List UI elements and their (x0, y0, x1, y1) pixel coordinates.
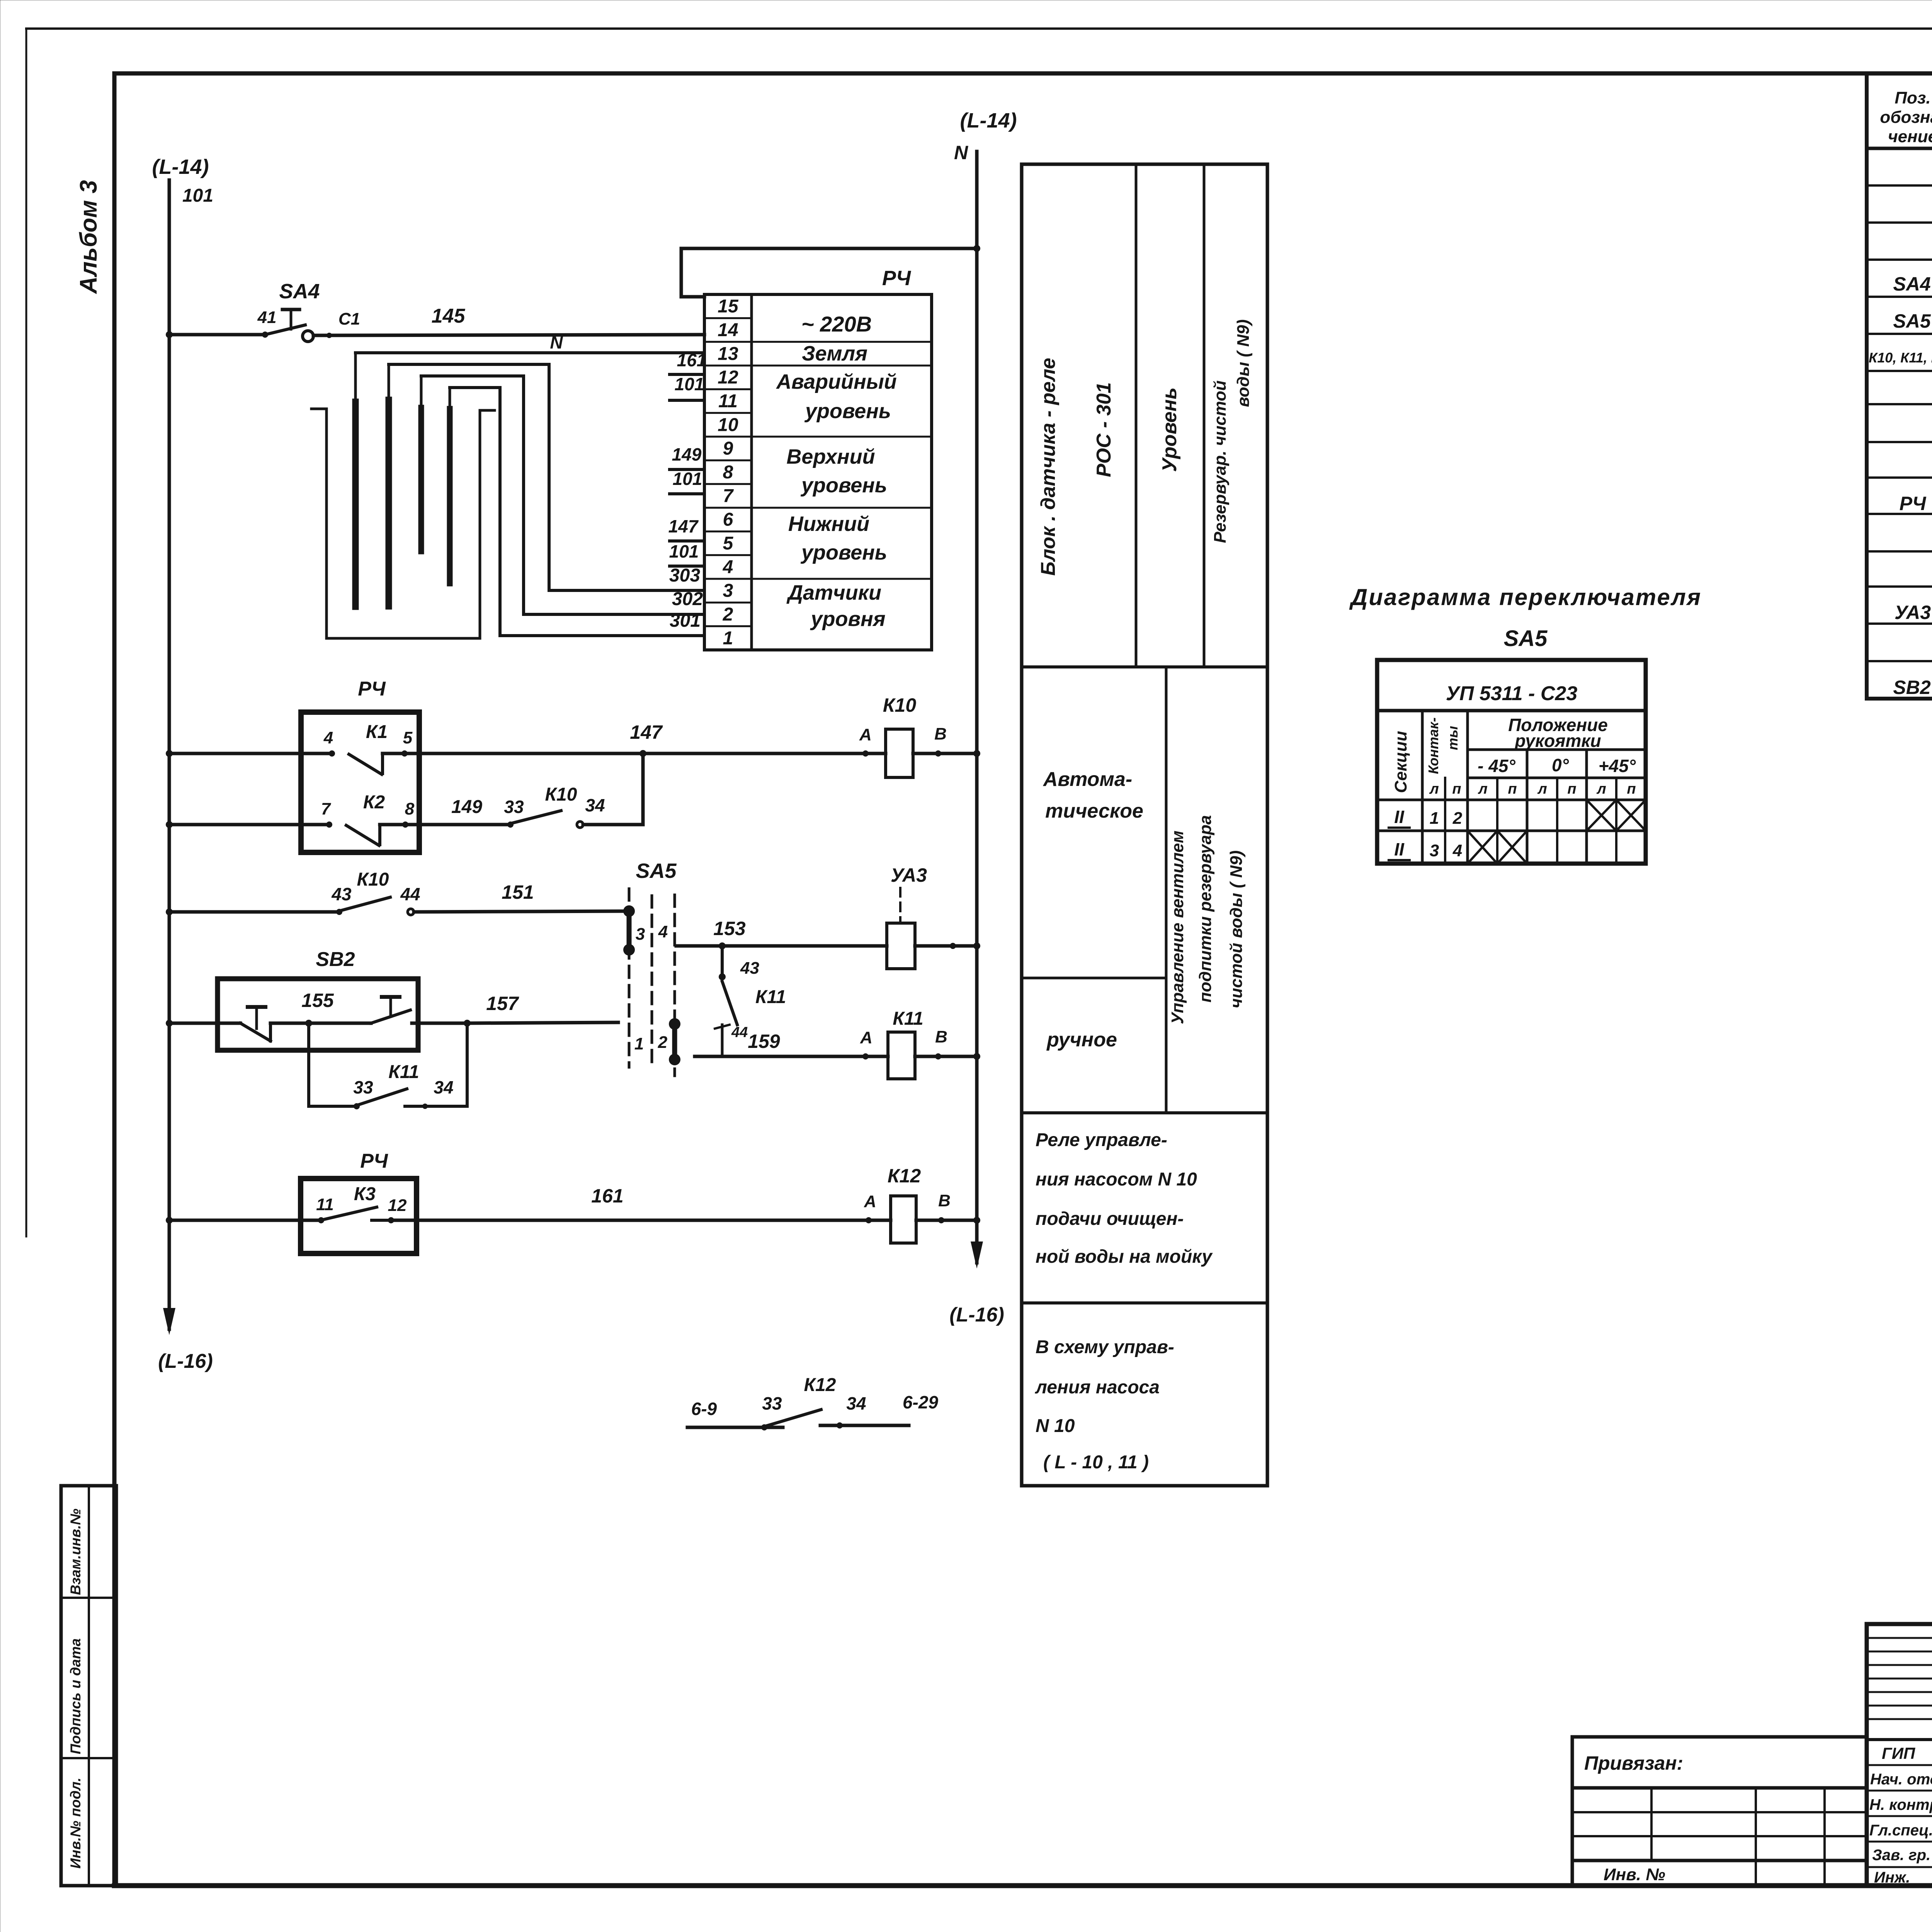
svg-text:Секции: Секции (1391, 731, 1410, 793)
svg-text:Нач. отд.: Нач. отд. (1870, 1771, 1932, 1788)
svg-text:34: 34 (846, 1393, 866, 1413)
svg-text:Контак-: Контак- (1425, 718, 1441, 774)
svg-text:101: 101 (182, 185, 213, 206)
svg-text:К10: К10 (545, 784, 577, 805)
svg-text:N 10: N 10 (1036, 1416, 1075, 1436)
svg-text:12: 12 (388, 1196, 407, 1215)
svg-text:РОС - 301: РОС - 301 (1093, 382, 1115, 477)
aux contact K11 33-34 self hold (307, 1023, 310, 1106)
svg-text:(L-16): (L-16) (158, 1350, 213, 1372)
svg-text:К2: К2 (363, 792, 385, 813)
relay coil K10 (862, 750, 869, 757)
svg-text:РЧ: РЧ (358, 678, 386, 700)
svg-text:Реле управле-: Реле управле- (1036, 1130, 1167, 1150)
svg-text:13: 13 (718, 344, 738, 364)
svg-text:Аварийный: Аварийный (776, 370, 897, 393)
svg-text:~ 220В: ~ 220В (801, 312, 872, 336)
svg-text:155: 155 (301, 990, 334, 1011)
svg-text:4: 4 (323, 728, 333, 747)
svg-text:л: л (1537, 781, 1547, 797)
svg-text:43: 43 (740, 959, 759, 978)
svg-text:К12: К12 (804, 1375, 836, 1395)
svg-text:тическое: тическое (1045, 800, 1143, 822)
svg-text:обозна-: обозна- (1880, 108, 1932, 127)
contact K2 row 149 (169, 823, 329, 827)
svg-text:В: В (938, 1191, 951, 1210)
svg-text:Инв. №: Инв. № (1604, 1865, 1665, 1884)
svg-text:подачи очищен-: подачи очищен- (1036, 1209, 1184, 1229)
aux contact K10 33-34 (507, 821, 514, 828)
svg-text:п: п (1567, 781, 1576, 797)
wire to terminal 15 (681, 248, 977, 297)
title block left mini rows (1867, 1637, 1932, 1639)
svg-text:147: 147 (668, 516, 699, 536)
wire stubs 161 101 149 101 147 101 (670, 373, 704, 376)
svg-text:п: п (1627, 781, 1636, 797)
svg-text:6-29: 6-29 (903, 1392, 938, 1412)
svg-text:уровень: уровень (800, 474, 887, 497)
svg-text:УП 5311 - С23: УП 5311 - С23 (1446, 682, 1578, 705)
svg-text:В схему управ-: В схему управ- (1036, 1337, 1174, 1357)
svg-text:0°: 0° (1552, 755, 1569, 775)
svg-text:(L-16): (L-16) (949, 1304, 1004, 1326)
wire 153 (676, 944, 887, 948)
svg-text:Поз.: Поз. (1895, 88, 1930, 107)
svg-text:+45°: +45° (1599, 756, 1636, 776)
svg-text:4: 4 (1452, 841, 1462, 860)
relay coil K12 (866, 1217, 872, 1223)
svg-text:8: 8 (405, 799, 415, 818)
SA5 section contacts 1-2 (672, 1024, 677, 1060)
svg-text:уровень: уровень (804, 400, 891, 423)
sheet outer border (26, 27, 1932, 30)
svg-text:А: А (864, 1192, 876, 1211)
privyazan stamp (1572, 1735, 1867, 1739)
svg-text:101: 101 (675, 374, 704, 394)
svg-text:157: 157 (486, 993, 519, 1014)
svg-text:л: л (1596, 781, 1606, 797)
svg-text:SA5: SA5 (636, 859, 677, 883)
svg-text:Альбом 3: Альбом 3 (75, 180, 102, 294)
wire 145 (327, 333, 332, 338)
svg-text:SB2: SB2 (1893, 677, 1930, 698)
svg-text:1: 1 (634, 1034, 644, 1053)
svg-text:1: 1 (1430, 809, 1439, 828)
electrode E3 wire 302 (418, 408, 424, 551)
svg-text:2: 2 (1452, 809, 1463, 828)
svg-text:4: 4 (658, 922, 668, 941)
svg-text:149: 149 (451, 797, 482, 817)
svg-text:РЧ: РЧ (1900, 493, 1927, 514)
svg-text:303: 303 (669, 565, 700, 586)
svg-text:- 45°: - 45° (1478, 756, 1515, 776)
svg-text:44: 44 (400, 884, 420, 904)
svg-text:3: 3 (636, 925, 645, 944)
svg-text:33: 33 (504, 797, 524, 817)
svg-text:N: N (550, 332, 563, 352)
electrode E2 wire 303 (386, 400, 392, 606)
svg-text:101: 101 (669, 541, 699, 561)
button SB2.2 (NO) (309, 1022, 371, 1025)
svg-text:Блок . датчика - реле: Блок . датчика - реле (1037, 358, 1060, 576)
svg-text:7: 7 (723, 486, 734, 506)
svg-text:15: 15 (718, 296, 739, 317)
svg-text:34: 34 (585, 795, 605, 815)
svg-text:161: 161 (591, 1185, 623, 1207)
svg-text:3: 3 (723, 581, 733, 601)
svg-text:3: 3 (1430, 841, 1439, 860)
svg-text:6-9: 6-9 (691, 1399, 717, 1419)
svg-text:9: 9 (723, 439, 733, 459)
svg-text:41: 41 (257, 308, 277, 327)
svg-text:ты: ты (1445, 726, 1461, 750)
svg-text:SA4: SA4 (279, 280, 320, 303)
electrode E4 wire 301 (447, 409, 453, 583)
svg-text:К10: К10 (357, 869, 389, 890)
svg-text:К10: К10 (883, 694, 917, 716)
svg-text:л: л (1429, 781, 1439, 797)
svg-text:Н. контр.: Н. контр. (1869, 1796, 1932, 1813)
svg-text:34: 34 (434, 1077, 453, 1097)
svg-text:Взам.инв.№: Взам.инв.№ (68, 1509, 83, 1595)
svg-text:2: 2 (658, 1033, 668, 1052)
svg-text:2: 2 (723, 604, 733, 625)
svg-text:Резервуар. чистой: Резервуар. чистой (1211, 380, 1230, 543)
svg-text:101: 101 (673, 469, 702, 489)
level sensor tank (311, 409, 495, 638)
selector contact K11 43-44 (721, 946, 724, 977)
signature rows (1867, 1738, 1932, 1741)
svg-text:43: 43 (331, 884, 352, 904)
drawing frame (114, 71, 1932, 76)
svg-text:чение: чение (1888, 127, 1932, 146)
svg-text:1: 1 (723, 628, 733, 648)
svg-text:л: л (1478, 781, 1488, 797)
svg-text:Гл.спец.: Гл.спец. (1869, 1822, 1932, 1839)
svg-text:п: п (1452, 781, 1461, 797)
electrode E1 (common N) (352, 402, 359, 607)
title block frame (1867, 1624, 1932, 1886)
svg-text:В: В (935, 1027, 947, 1046)
svg-text:К11: К11 (388, 1062, 419, 1082)
svg-text:УА3: УА3 (891, 864, 927, 886)
svg-text:II: II (1394, 807, 1405, 827)
svg-text:Привязан:: Привязан: (1584, 1752, 1683, 1774)
svg-text:33: 33 (762, 1393, 782, 1413)
aux contact K10 43-44 wire 151 (169, 910, 339, 914)
svg-text:SA5: SA5 (1893, 310, 1931, 332)
function description table (1022, 164, 1267, 1486)
contact K1 row 147 (169, 752, 332, 755)
svg-text:Верхний: Верхний (786, 445, 875, 468)
svg-text:Автома-: Автома- (1043, 768, 1132, 791)
svg-text:К11: К11 (755, 987, 786, 1007)
svg-text:Управление вентилем: Управление вентилем (1168, 830, 1187, 1024)
svg-text:ления насоса: ления насоса (1035, 1377, 1160, 1398)
svg-text:К11: К11 (893, 1009, 923, 1029)
svg-text:Уровень: Уровень (1158, 388, 1181, 472)
svg-text:8: 8 (723, 462, 733, 483)
svg-text:Инж.: Инж. (1874, 1869, 1910, 1886)
svg-text:12: 12 (718, 367, 738, 388)
svg-text:14: 14 (718, 320, 738, 340)
svg-text:N: N (954, 142, 968, 163)
svg-text:Земля: Земля (802, 342, 867, 365)
side stamp (inventory strip) (61, 1486, 116, 1886)
svg-text:К1: К1 (366, 722, 388, 742)
svg-text:C1: C1 (338, 310, 360, 328)
svg-text:10: 10 (718, 415, 738, 435)
svg-text:6: 6 (723, 510, 733, 530)
svg-text:153: 153 (713, 918, 746, 939)
svg-text:( L - 10 , 11 ): ( L - 10 , 11 ) (1043, 1452, 1149, 1473)
РЧ contact box K1 K2 (301, 712, 419, 852)
svg-text:РЧ: РЧ (360, 1150, 388, 1172)
svg-text:II: II (1394, 839, 1405, 859)
svg-text:ручное: ручное (1046, 1029, 1117, 1051)
svg-text:уровня: уровня (810, 607, 885, 631)
svg-text:К10, К11, К12: К10, К11, К12 (1869, 350, 1932, 366)
svg-text:4: 4 (723, 557, 733, 577)
button SB2.1 (NC) (240, 1023, 270, 1041)
svg-text:воды ( N9): воды ( N9) (1234, 319, 1253, 407)
svg-text:А: А (860, 1028, 872, 1047)
svg-text:5: 5 (403, 728, 413, 747)
svg-text:33: 33 (353, 1077, 373, 1097)
svg-text:Датчики: Датчики (786, 581, 881, 604)
svg-text:подпитки резервуара: подпитки резервуара (1196, 815, 1215, 1003)
svg-text:SA5: SA5 (1504, 626, 1548, 651)
svg-text:Нижний: Нижний (788, 512, 869, 536)
svg-text:чистой воды ( N9): чистой воды ( N9) (1227, 850, 1246, 1009)
svg-text:SA4: SA4 (1893, 273, 1930, 295)
svg-text:44: 44 (731, 1024, 748, 1041)
svg-text:К12: К12 (888, 1165, 921, 1187)
parts list table (1867, 73, 1932, 699)
wire 157 (467, 1022, 618, 1023)
svg-text:11: 11 (718, 391, 738, 412)
SA5 section contacts 3-4 (627, 911, 632, 950)
svg-text:Зав. гр.: Зав. гр. (1872, 1847, 1930, 1864)
svg-text:ГИП: ГИП (1882, 1744, 1915, 1762)
SA5 diagram table (1377, 660, 1646, 864)
svg-text:(L-14): (L-14) (152, 155, 209, 179)
svg-text:ной воды на мойку: ной воды на мойку (1036, 1247, 1213, 1267)
aux contact K12 6-9 33 34 6-29 (687, 1426, 783, 1429)
svg-text:рукоятки: рукоятки (1514, 731, 1601, 751)
svg-text:ния насосом N 10: ния насосом N 10 (1036, 1169, 1197, 1190)
svg-text:РЧ: РЧ (882, 267, 912, 290)
svg-text:7: 7 (321, 799, 332, 818)
svg-text:уровень: уровень (800, 541, 887, 564)
svg-text:11: 11 (316, 1195, 334, 1214)
svg-text:145: 145 (432, 305, 466, 327)
svg-text:Инв.№ подл.: Инв.№ подл. (68, 1777, 83, 1869)
svg-text:159: 159 (748, 1031, 780, 1052)
svg-text:УА3: УА3 (1895, 602, 1931, 623)
svg-text:5: 5 (723, 533, 734, 554)
svg-text:Подпись и дата: Подпись и дата (68, 1638, 83, 1754)
svg-text:п: п (1508, 781, 1517, 797)
svg-text:Диаграмма переключателя: Диаграмма переключателя (1349, 584, 1702, 610)
svg-text:(L-14): (L-14) (960, 109, 1017, 132)
svg-text:А: А (859, 725, 872, 744)
svg-text:151: 151 (502, 881, 534, 903)
svg-text:SB2: SB2 (316, 948, 355, 971)
svg-text:149: 149 (672, 444, 702, 464)
svg-text:К3: К3 (354, 1184, 376, 1204)
wire 159 relay coil K11 (695, 1055, 888, 1058)
svg-text:В: В (934, 724, 947, 743)
svg-text:147: 147 (630, 721, 663, 743)
РЧ contact box K3 (301, 1179, 417, 1253)
